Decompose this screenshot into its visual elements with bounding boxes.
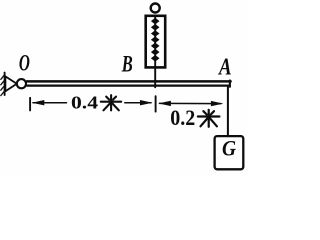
dimension arrow right (0.4m) bbox=[125, 100, 153, 105]
dimension label meter glyph 1 bbox=[101, 95, 121, 110]
wall bbox=[1, 73, 5, 96]
dimension line 0.2m bbox=[160, 102, 222, 104]
weight box G bbox=[215, 136, 244, 169]
spring coils bbox=[151, 18, 160, 62]
lever beam right end cap bbox=[229, 80, 231, 86]
hanger wire A to G bbox=[227, 87, 229, 136]
lever beam bottom line bbox=[27, 84, 229, 86]
svg-text:0.2: 0.2 bbox=[170, 105, 195, 130]
svg-text:G: G bbox=[222, 136, 236, 161]
svg-text:B: B bbox=[121, 52, 133, 77]
spring scale ring bbox=[151, 4, 160, 13]
lever beam top line bbox=[27, 80, 231, 83]
pivot triangle bbox=[5, 76, 16, 91]
svg-text:O: O bbox=[19, 51, 30, 77]
dimension arrow left (0.4m) bbox=[32, 100, 67, 105]
pivot circle O bbox=[17, 79, 26, 88]
dimension arrow left (0.2m) bbox=[158, 101, 171, 106]
spring scale body bbox=[146, 16, 166, 68]
dimension tick at O bbox=[29, 98, 31, 111]
spring scale rod bbox=[154, 17, 156, 88]
dimension label meter glyph 2 bbox=[198, 110, 220, 127]
dimension arrow right (0.2m) bbox=[211, 101, 224, 106]
svg-text:A: A bbox=[217, 54, 231, 80]
dimension tick at B bbox=[155, 96, 157, 111]
svg-text:0.4: 0.4 bbox=[71, 93, 98, 113]
